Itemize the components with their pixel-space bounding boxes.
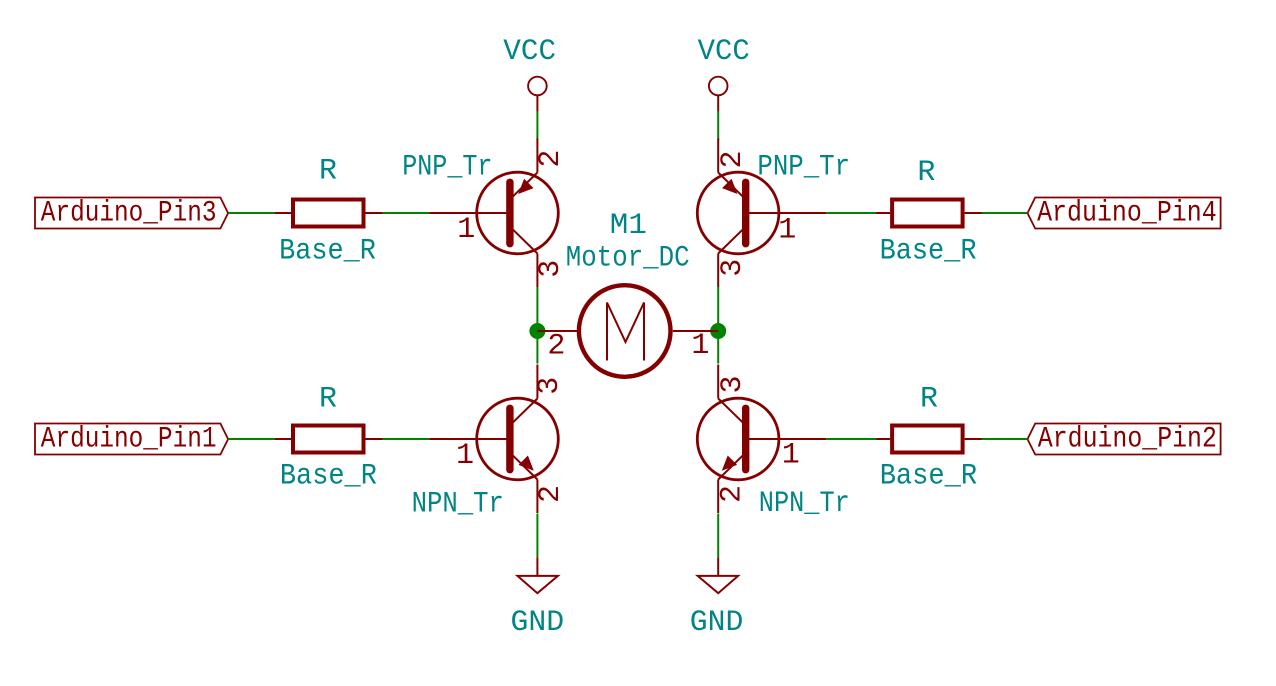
VCC left value label	[503, 35, 556, 69]
svg-text:2: 2	[716, 485, 750, 503]
wire Arduino_Pin1 to resistor	[228, 438, 275, 440]
svg-text:Arduino_Pin1: Arduino_Pin1	[41, 423, 217, 457]
pin 3 label NPN left	[533, 377, 567, 395]
PNP_Tr top-left field label	[402, 151, 492, 185]
svg-text:Base_R: Base_R	[279, 234, 376, 268]
svg-text:R: R	[917, 156, 935, 190]
svg-text:GND: GND	[511, 606, 565, 640]
global label Arduino_Pin1	[35, 423, 228, 457]
svg-text:3: 3	[533, 377, 567, 395]
wire VCC left to PNP emitter	[536, 112, 538, 140]
wire PNP right collector to junction	[717, 287, 719, 364]
wire VCC right to PNP emitter	[717, 112, 719, 140]
transistor PNP_Tr top-right	[697, 139, 826, 288]
wire NPN right emitter to GND	[717, 514, 719, 558]
pin 1 label motor right	[691, 329, 709, 363]
pin 3 label PNP left	[534, 260, 568, 278]
wire Arduino_Pin2 to resistor	[980, 438, 1028, 440]
NPN_Tr bottom-left field label	[412, 488, 504, 522]
resistor R (Base_R) top-right	[874, 200, 982, 227]
svg-text:GND: GND	[690, 606, 744, 640]
wire resistor to PNP right base	[826, 212, 876, 214]
pin 2 label PNP right	[716, 150, 750, 168]
global label Arduino_Pin3	[35, 197, 228, 231]
svg-text:R: R	[319, 155, 337, 189]
Base_R top-left field label	[279, 234, 376, 268]
svg-text:1: 1	[691, 329, 709, 363]
svg-text:R: R	[920, 382, 938, 416]
R top-left value label	[319, 155, 337, 189]
resistor R (Base_R) bottom-right	[874, 426, 982, 453]
M1 reference label	[610, 209, 647, 243]
pin 1 label PNP right	[778, 213, 796, 247]
pin 2 label NPN right	[716, 485, 750, 503]
svg-text:Base_R: Base_R	[880, 460, 978, 494]
junction node left motor terminal	[529, 323, 545, 339]
svg-text:R: R	[319, 382, 337, 416]
svg-text:2: 2	[716, 150, 750, 168]
svg-text:1: 1	[456, 439, 474, 473]
wire Arduino_Pin3 to resistor	[228, 212, 275, 214]
Base_R top-right field label	[880, 234, 977, 268]
svg-text:Arduino_Pin4: Arduino_Pin4	[1037, 197, 1217, 231]
pin 3 label PNP right	[716, 259, 750, 277]
svg-text:Motor_DC: Motor_DC	[566, 241, 690, 275]
svg-text:VCC: VCC	[698, 35, 750, 69]
svg-text:2: 2	[534, 150, 568, 168]
svg-text:3: 3	[716, 259, 750, 277]
pin 2 label motor left	[547, 329, 565, 363]
wire resistor to NPN right base	[826, 438, 876, 440]
junction node right motor terminal	[710, 323, 726, 339]
wire PNP left collector to junction	[536, 287, 538, 364]
ground GND right	[698, 557, 738, 593]
power symbol VCC left	[528, 77, 547, 112]
pin 1 label PNP left	[457, 213, 475, 247]
svg-text:Arduino_Pin2: Arduino_Pin2	[1038, 423, 1217, 457]
pin 1 label NPN right	[782, 439, 800, 473]
VCC right value label	[698, 35, 750, 69]
svg-text:1: 1	[778, 213, 796, 247]
svg-text:NPN_Tr: NPN_Tr	[759, 487, 850, 521]
svg-text:NPN_Tr: NPN_Tr	[412, 488, 504, 522]
ground GND left	[518, 557, 558, 593]
global label Arduino_Pin2	[1028, 423, 1221, 457]
resistor R (Base_R) bottom-left	[275, 426, 383, 453]
wire NPN left emitter to GND	[536, 514, 538, 558]
pin 3 label NPN right	[716, 375, 750, 393]
wire Arduino_Pin4 to resistor	[980, 212, 1028, 214]
pin 1 label NPN left	[456, 439, 474, 473]
svg-text:PNP_Tr: PNP_Tr	[402, 151, 492, 185]
NPN_Tr bottom-right field label	[759, 487, 850, 521]
wire resistor to NPN left base	[383, 438, 430, 440]
wire resistor to PNP left base	[383, 212, 430, 214]
svg-text:PNP_Tr: PNP_Tr	[757, 151, 850, 185]
PNP_Tr top-right field label	[757, 151, 850, 185]
svg-text:3: 3	[716, 375, 750, 393]
transistor NPN_Tr bottom-left	[429, 365, 558, 514]
resistor R (Base_R) top-left	[275, 200, 383, 227]
svg-text:3: 3	[534, 260, 568, 278]
global label Arduino_Pin4	[1028, 197, 1221, 231]
R bottom-right value label	[920, 382, 938, 416]
svg-text:M1: M1	[610, 209, 647, 243]
GND left value label	[511, 606, 565, 640]
svg-text:Base_R: Base_R	[280, 460, 377, 494]
GND right value label	[690, 606, 744, 640]
motor M1 Motor_DC	[537, 285, 718, 377]
Motor_DC value label	[566, 241, 690, 275]
transistor PNP_Tr top-left	[429, 139, 558, 288]
R bottom-left value label	[319, 382, 337, 416]
pin 2 label NPN left	[534, 485, 568, 503]
svg-text:Arduino_Pin3: Arduino_Pin3	[41, 197, 217, 231]
Base_R bottom-right field label	[880, 460, 978, 494]
pin 2 label PNP left	[534, 150, 568, 168]
svg-text:VCC: VCC	[503, 35, 556, 69]
R top-right value label	[917, 156, 935, 190]
svg-text:2: 2	[534, 485, 568, 503]
Base_R bottom-left field label	[280, 460, 377, 494]
svg-text:2: 2	[547, 329, 565, 363]
svg-text:1: 1	[782, 439, 800, 473]
power symbol VCC right	[709, 77, 728, 112]
svg-text:Base_R: Base_R	[880, 234, 977, 268]
svg-text:1: 1	[457, 213, 475, 247]
transistor NPN_Tr bottom-right	[697, 365, 826, 514]
